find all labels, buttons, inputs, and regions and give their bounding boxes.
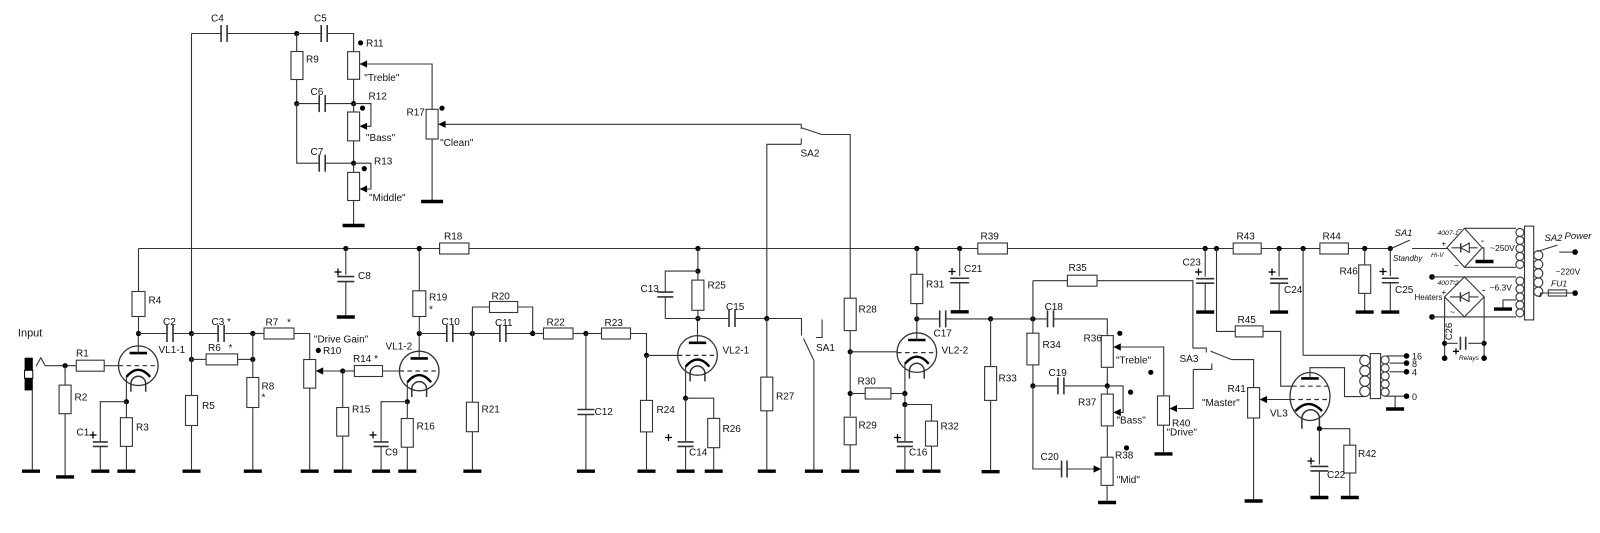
svg-text:VL1-1: VL1-1 [159,345,186,356]
node R46 on bus [1362,246,1367,251]
wire VL3 anode to OT [1310,368,1364,397]
potentiometer R17 Clean [426,109,446,139]
wire C6 to node [325,103,353,105]
wire bridge1 to HV winding bottom [1465,266,1517,268]
terminal dot R40 [1148,370,1153,375]
ground below C9 [372,470,390,473]
svg-text:4: 4 [1412,368,1417,378]
node VL2-2 cathode [902,391,907,396]
potentiometer R36 Treble2 [1101,336,1121,368]
svg-text:Relays: Relays [1459,355,1480,362]
node input [63,363,68,368]
capacitor C22 [1310,466,1328,471]
wire tall vertical from tone stack [191,34,193,334]
node C19 left [1030,383,1035,388]
capacitor C3 [218,325,224,342]
wire node to R24 [646,355,648,400]
svg-text:C7: C7 [311,147,324,158]
node VL2-2 anode [914,316,919,321]
svg-text:SA2: SA2 [801,149,820,160]
wire to R35 [1033,280,1068,282]
wire node to VL2-1 grid [647,354,678,356]
resistor R30 [858,377,891,400]
terminal 0 ohm [1404,393,1410,399]
resistor R7 [264,318,294,340]
svg-text:C16: C16 [909,448,928,459]
wire R19 to anode node [418,317,420,334]
ground below R26 [705,470,723,473]
svg-text:C2: C2 [163,317,176,328]
potentiometer R37 Bass2 [1101,394,1121,426]
wire R30 to cathode [891,393,905,395]
capacitor C11 [500,325,506,342]
wire node to R13 [353,163,355,172]
terminal 4 ohm [1404,369,1410,375]
wire bridge1 minus to ground [1482,248,1484,260]
svg-text:R27: R27 [776,392,795,403]
svg-text:*: * [287,318,291,329]
wire R11 to node R12 [353,79,355,103]
wire R14 to VL1-2 grid [383,370,400,372]
node C23 on bus [1203,246,1208,251]
wire bridge2 plus down [1444,297,1446,358]
terminal heater AC top [1429,274,1435,280]
node R31 on bus [914,246,919,251]
power transformer T2 [1516,226,1543,320]
wire R15 to ground [342,436,344,469]
node C26 right [1482,341,1487,346]
svg-text:SA3: SA3 [1180,354,1199,365]
svg-text:"Master": "Master" [1202,398,1240,409]
wire R12 wiper to top [354,104,371,127]
node C17/R33 [988,316,993,321]
wire R21 to ground [471,432,473,470]
svg-text:R36: R36 [1084,334,1103,345]
wire cathode down2 [904,394,906,405]
wire C10 to node [453,333,473,335]
svg-text:R30: R30 [858,377,877,388]
wire R6 to node [238,358,253,360]
svg-text:C6: C6 [311,87,324,98]
wire node to R29 [849,352,851,416]
wire to R32 [905,405,932,422]
svg-text:FU1: FU1 [1551,279,1567,289]
capacitor C5 [321,25,327,42]
wire node to R25 [697,271,699,280]
wire R27 to ground [766,411,768,470]
ground below OT [1386,407,1404,410]
wire R25 to anode node [697,310,699,318]
triode VL1-1 [119,345,186,392]
wire node to R23 [586,333,602,335]
resistor R3 [120,418,149,447]
wire R23 down [631,334,647,356]
wire R46 to ground [1364,293,1366,310]
ground below R24 [638,470,656,473]
wire C7 to node [325,162,353,164]
svg-text:"Mid": "Mid" [1117,475,1141,486]
capacitor C16 [897,442,913,447]
wire R35 to SA3 [1097,281,1193,348]
wire R10 to ground [309,388,311,469]
wire node to C5 [297,33,322,35]
svg-text:C1: C1 [77,428,90,439]
wire R32 to ground [931,446,933,469]
wire C22 to ground [1318,471,1320,496]
wire SA2 to terminal [1559,251,1572,253]
resistor R14 [353,354,383,377]
wire heater AC top [1432,276,1516,278]
wire R38 to ground [1106,485,1108,500]
svg-text:+: + [1442,240,1447,249]
wire C23 to ground [1204,283,1206,310]
triode VL2-2 [897,333,969,379]
wire cathode to R26 [686,398,714,418]
wire R24 to ground [646,432,648,470]
wire to C26 [1445,342,1458,344]
wire R13 to ground [353,201,355,226]
resistor R34 [1027,333,1061,365]
node C15/SA1/R27 [764,316,769,321]
ground below R41 [1245,499,1263,502]
svg-text:Heaters: Heaters [1415,293,1443,302]
ground below R29 [841,470,859,473]
wire bus to C24 [1278,249,1280,277]
wire C20 to R38 wiper [1067,468,1094,470]
wire VL2-2 anode up [916,319,918,340]
wire node to R12 [353,104,355,112]
node R19 on bus [417,246,422,251]
terminal power line [1572,249,1578,255]
plus C21 [949,271,956,273]
svg-text:C19: C19 [1049,368,1068,379]
svg-text:C5: C5 [314,14,327,25]
wire bus to C25 [1389,249,1391,277]
resistor R31 [911,274,945,303]
triode VL2-1 [678,336,750,382]
wire B+ bus left [139,248,440,250]
node VL3 cathode [1317,426,1322,431]
svg-text:~220V: ~220V [1556,267,1581,277]
capacitor C6 [319,95,325,112]
node C4/C5/R9 [294,31,299,36]
switch SA1 [767,319,822,361]
resistor R35 [1067,263,1097,286]
wire bus to R45 [1217,249,1236,332]
wire C21 to ground [959,283,961,310]
svg-text:Standby: Standby [1393,254,1423,263]
node R34/R35 [1030,316,1035,321]
wire to VL2-2 grid [850,351,897,353]
wire C25 to ground [1389,283,1391,311]
wire VL2-2 cathode down [904,364,906,394]
svg-text:R32: R32 [941,422,960,433]
wire B+ bus mid3 [1261,248,1320,250]
wire C19 to node [1064,385,1107,387]
node VL2-2 grid [848,349,853,354]
resistor R43 [1233,232,1261,255]
node VL2-1 anode [695,316,700,321]
wire R13 wiper to top [354,163,371,189]
svg-text:C17: C17 [934,329,953,340]
node R11/R12 [351,101,356,106]
resistor R20 [490,292,518,313]
svg-text:C21: C21 [964,264,983,275]
wire B+ bus mid2 [1007,248,1233,250]
wire jack tip to R1 [45,365,76,367]
wire heater center tap [1503,300,1516,308]
wire node to C6 [297,103,320,105]
wire R29 to ground [849,445,851,470]
svg-text:C22: C22 [1327,470,1346,481]
wire primary to fuse [1538,293,1548,296]
node C25/SA1 on bus [1388,246,1393,251]
ground below C22 [1310,496,1328,499]
wire node to R37 [1106,386,1108,394]
svg-text:C4: C4 [211,14,224,25]
node R6 left [189,357,194,362]
wire node to R8 [252,334,254,378]
capacitor C2 [167,325,173,342]
node C16/R32 [902,402,907,407]
terminal power neutral [1572,290,1578,296]
node R22/C12/R23 [583,331,588,336]
wire bus to R31 [916,249,918,275]
plus C8 [335,271,342,273]
capacitor C15 [729,310,735,327]
terminal 8 ohm [1404,360,1410,366]
svg-text:R1: R1 [76,349,89,360]
resistor R25 [692,280,726,310]
svg-text:~: ~ [1451,277,1456,286]
switch SA3 [1193,348,1232,369]
wire node down to C20 [1033,386,1062,469]
resistor R5 [186,396,216,426]
ground below SA1 [805,470,823,473]
ground below C25 [1381,310,1399,313]
wire C11 to node [506,333,533,335]
resistor R9 [291,52,319,80]
svg-text:"Treble": "Treble" [1116,356,1152,367]
capacitor C20 [1062,461,1068,478]
wire R9 to C6 node [296,80,298,104]
svg-text:R45: R45 [1238,315,1257,326]
resistor R39 [978,232,1008,255]
wire OT tap 4 [1390,371,1405,373]
svg-text:C13: C13 [641,284,660,295]
wire to R6 [192,358,207,360]
node C2/C3 [189,331,194,336]
wire anode node to C2 [139,333,168,335]
wire C2 to node [173,333,192,335]
wire node to R7 [253,333,264,335]
capacitor C25 [1382,278,1399,283]
wire node to R30 [850,393,865,395]
svg-text:R2: R2 [75,393,88,404]
node R45 on bus [1214,246,1219,251]
wire VL1-1 cathode down [125,377,127,402]
resistor R21 [466,402,500,432]
terminal dot R37 [1128,390,1133,395]
node R10 wiper [340,368,345,373]
svg-text:~: ~ [1454,262,1459,271]
wire R36 to node [1106,367,1108,386]
wire C9 to ground [380,447,382,470]
resistor R8 [247,378,275,408]
capacitor C21 [950,278,969,283]
wire node to R14 [343,370,355,372]
potentiometer R12 Bass [348,112,368,141]
svg-text:SA1: SA1 [1395,228,1413,239]
wire R35 vertical [1032,281,1034,334]
svg-text:R16: R16 [417,422,436,433]
wire to C16 [904,405,906,442]
wire VL1-2 cathode down [406,382,408,402]
wire R4 to anode node [138,317,140,334]
wire node to C19 [1033,385,1058,387]
ground below R8 [244,470,262,473]
svg-text:VL2-2: VL2-2 [942,346,969,357]
potentiometer R38 Mid [1094,457,1114,485]
capacitor C10 [447,325,453,342]
node VL1-1 anode [136,331,141,336]
wire R16 to ground [406,447,408,469]
svg-text:C14: C14 [689,448,708,459]
terminal dot R17 [439,106,444,111]
resistor R18 [440,232,469,255]
node VL1-2 anode [417,331,422,336]
wire fuse to terminal [1567,292,1573,294]
capacitor C19 [1058,377,1064,394]
ground heater tap [1494,307,1512,310]
svg-text:SA2: SA2 [1545,233,1564,244]
svg-text:C18: C18 [1045,302,1064,313]
svg-text:R26: R26 [723,424,742,435]
potentiometer R10 Drive Gain [304,360,324,389]
wire node to R15 [342,371,344,408]
svg-text:Hi-V: Hi-V [1431,252,1444,259]
wire OT tap 0 [1385,395,1404,397]
ground below R27 [758,470,776,473]
node C13/R25 top [695,269,700,274]
svg-text:R4: R4 [149,296,162,307]
capacitor C23 [1196,279,1214,284]
node C24 on bus [1277,246,1282,251]
wire bridge1 to HV winding top [1465,227,1517,229]
ground below R3 [117,470,135,473]
wire cathode to C14 [685,398,687,441]
resistor R19 [413,291,448,317]
wire SA3 throw to R40 wiper [1178,369,1194,408]
resistor R27 [761,377,795,411]
wire to C13 [665,271,698,292]
svg-text:R33: R33 [999,374,1018,385]
plus C24 [1269,271,1276,273]
svg-text:C9: C9 [385,448,398,459]
wire R42 to ground [1349,473,1351,496]
wire VL1-2 anode up [418,334,420,359]
resistor R45 [1235,315,1263,337]
ground below R33 [982,470,1000,473]
wire R33 to ground [990,400,992,470]
capacitor C14 [678,442,694,447]
wire R3 to ground [125,446,127,469]
wire R36 wiper to R40 [1121,347,1164,396]
svg-text:"Drive Gain": "Drive Gain" [314,335,369,346]
terminal dot R10 [316,348,321,353]
terminal 16 ohm [1404,353,1410,359]
resistor R46 [1359,265,1371,294]
node C21 on bus [957,246,962,251]
node R25 on bus [695,246,700,251]
terminal dot R11 [358,40,363,45]
wire R8 to ground [252,408,254,470]
svg-text:R42: R42 [1358,449,1377,460]
fuse FU1 [1548,290,1566,296]
terminal dot R12 [360,106,365,111]
plus C22 [1308,460,1315,462]
wire SA1 to ground [813,361,815,470]
wire VL2-1 cathode down [685,367,687,399]
wire cathode to R3 [125,402,127,418]
svg-text:C3: C3 [212,317,225,328]
wire R28 down [849,331,851,352]
ground below C23 [1196,310,1214,313]
wire C13 to anode node [665,297,698,319]
svg-text:VL3: VL3 [1270,409,1288,420]
wire heater AC bottom [1432,316,1516,318]
wire OT primary top [1303,354,1365,356]
wire cathode to R16 [406,402,408,419]
wire node to C11 [472,333,500,335]
wire cathode to C9 [381,402,407,442]
wire R17 to ground [431,139,433,202]
wire node to R9 [296,34,298,52]
node C10/C11/R20 [470,331,475,336]
capacitor C1 [93,442,108,447]
svg-text:SA1: SA1 [816,343,835,354]
svg-text:C23: C23 [1183,258,1202,269]
ground bridge1 [1476,260,1494,263]
svg-text:R8: R8 [262,382,275,393]
capacitor C13 [657,292,673,297]
svg-text:R24: R24 [657,405,676,416]
plus C9 [370,434,377,436]
potentiometer R11 Treble [348,52,368,80]
ground below C12 [577,470,595,473]
wire C16 to ground [904,447,906,470]
svg-text:"Middle": "Middle" [369,193,406,204]
svg-text:C20: C20 [1041,452,1060,463]
ground below R10 [301,470,319,473]
svg-text:R43: R43 [1237,232,1256,243]
wire C4 to node [227,33,297,35]
wire SA2 common down to R28 [822,135,851,299]
svg-text:R20: R20 [492,292,511,303]
wire R40 to ground [1163,425,1165,452]
wire R5 to ground [191,426,193,470]
wire VL1-1 anode up [137,334,139,354]
resistor R2 [59,385,88,414]
wire C5 to R11 [327,34,353,52]
wire VL2-1 anode up [697,319,699,343]
ground below C8 [337,315,355,318]
svg-text:R13: R13 [374,157,393,168]
svg-text:C15: C15 [726,302,745,313]
svg-text:R25: R25 [708,281,727,292]
svg-text:"Bass": "Bass" [1117,416,1147,427]
svg-text:R15: R15 [352,405,371,416]
